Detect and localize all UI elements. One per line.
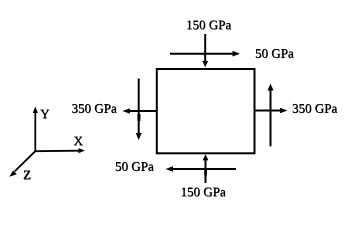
- svg-text:350 GPa: 350 GPa: [72, 101, 117, 116]
- svg-text:150 GPa: 150 GPa: [181, 184, 226, 199]
- Z axis: [9, 151, 35, 177]
- label Y: [40, 106, 50, 121]
- right shear arrow (up): [268, 84, 274, 147]
- svg-text:150 GPa: 150 GPa: [186, 17, 231, 32]
- label X: [74, 133, 84, 148]
- label 350 GPa left: [72, 101, 118, 116]
- left shear arrow (down): [136, 79, 142, 141]
- top normal stress arrow 150 GPa (down): [202, 34, 208, 67]
- label 150 GPa bottom: [181, 184, 227, 199]
- label 150 GPa top: [186, 17, 232, 32]
- svg-text:50 GPa: 50 GPa: [115, 159, 154, 174]
- bottom normal stress arrow 150 GPa (up): [203, 154, 209, 183]
- svg-text:Z: Z: [23, 167, 31, 182]
- left normal stress arrow 350 GPa (left): [123, 108, 157, 113]
- label Z: [23, 167, 31, 182]
- bottom shear arrow 50 GPa (left): [166, 166, 237, 172]
- svg-text:50 GPa: 50 GPa: [255, 46, 294, 61]
- svg-text:Y: Y: [40, 106, 50, 121]
- svg-text:350 GPa: 350 GPa: [292, 101, 337, 116]
- stress element square: [157, 69, 255, 153]
- top shear arrow 50 GPa (right): [170, 51, 240, 57]
- X axis: [35, 148, 85, 153]
- label 50 GPa top: [255, 46, 294, 61]
- right normal stress arrow 350 GPa (right): [255, 108, 288, 114]
- label 50 GPa bottom: [115, 159, 154, 174]
- label 350 GPa right: [292, 101, 338, 116]
- svg-text:X: X: [74, 133, 84, 148]
- Y axis: [33, 107, 38, 152]
